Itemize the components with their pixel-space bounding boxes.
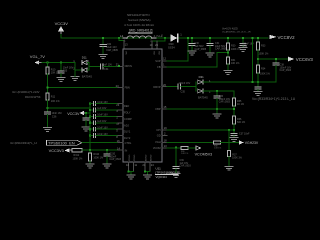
svg-text:100K 1%: 100K 1% xyxy=(73,157,84,160)
svg-text:R11: R11 xyxy=(51,95,56,98)
svg-text:CPI: CPI xyxy=(156,128,161,132)
svg-text:AGND: AGND xyxy=(144,154,147,161)
svg-text:1K 1%: 1K 1% xyxy=(237,103,245,106)
IC bottom pins xyxy=(126,162,154,175)
ground under C33 xyxy=(239,48,247,52)
ground under C30 xyxy=(188,51,196,55)
svg-text:VQFN24: VQFN24 xyxy=(156,175,168,179)
svg-text:FBN: FBN xyxy=(125,86,130,90)
svg-text:C34: C34 xyxy=(104,68,109,71)
svg-text:PGND: PGND xyxy=(129,154,131,161)
resistor R10 xyxy=(46,63,60,94)
svg-text:BAT54S: BAT54S xyxy=(198,95,208,99)
capacitor row DLY1 xyxy=(89,126,131,133)
node (86,113) xyxy=(85,112,87,114)
capacitor under R34 xyxy=(255,87,261,91)
svg-text:FBP: FBP xyxy=(156,107,161,111)
svg-text:1.0K 1%: 1.0K 1% xyxy=(214,148,221,150)
svg-text:ADJ: ADJ xyxy=(124,123,130,127)
wire cap-bank bus x90 xyxy=(89,104,91,150)
svg-text:24: 24 xyxy=(151,163,154,167)
capacitor row FDLY xyxy=(89,107,131,114)
diode D30 xyxy=(161,32,182,49)
capacitor C32 input xyxy=(100,38,119,54)
svg-text:600 1%: 600 1% xyxy=(237,121,246,124)
resistor R34 xyxy=(256,65,270,87)
svg-text:13: 13 xyxy=(164,144,167,148)
wire row y87.5 PGN xyxy=(48,87,119,89)
node (47.5,108) xyxy=(46,107,48,109)
inductor L1 annotation block xyxy=(124,13,154,33)
wire D11 tap to flying cap xyxy=(89,65,100,67)
svg-text:SS34: SS34 xyxy=(168,46,175,50)
resistor R312 horizontal xyxy=(72,149,83,161)
wire DRVP row xyxy=(162,86,167,88)
svg-text:VCC3V: VCC3V xyxy=(67,112,80,116)
svg-text:CAP_0805: CAP_0805 xyxy=(195,48,207,51)
net label VGL_7V xyxy=(30,54,45,65)
svg-text:CAP_0603: CAP_0603 xyxy=(280,69,292,72)
power flag VCC3V xyxy=(55,21,69,38)
svg-text:CAP_0603: CAP_0603 xyxy=(180,164,192,167)
svg-text:DLY1: DLY1 xyxy=(124,130,131,134)
resistor R310 xyxy=(88,150,104,163)
resistor R39 horizontal xyxy=(181,146,196,155)
ground under C31 xyxy=(206,53,214,57)
svg-text:C36: C36 xyxy=(52,115,57,118)
wire VGL row y62.5 xyxy=(42,62,75,64)
svg-text:R34: R34 xyxy=(261,68,266,71)
svg-text:PGND: PGND xyxy=(134,154,136,161)
wire bus after diode xyxy=(178,37,268,39)
svg-text:1uF 16V: 1uF 16V xyxy=(97,120,106,123)
wire SW pins elbow xyxy=(164,38,166,41)
ground under R31 xyxy=(224,71,232,75)
power arrow VCC6V3 xyxy=(288,57,313,63)
svg-text:SUP: SUP xyxy=(155,59,161,63)
wire row y108 xyxy=(48,107,91,109)
svg-text:CAP_0805: CAP_0805 xyxy=(215,48,227,51)
capacitor row COMP xyxy=(89,114,132,121)
capacitor C35 10nF xyxy=(58,63,74,78)
svg-text:19: 19 xyxy=(164,126,167,130)
svg-text:10nF 16V: 10nF 16V xyxy=(97,114,108,117)
svg-text:10: 10 xyxy=(126,163,129,167)
capacitor C30 xyxy=(189,38,207,51)
svg-text:Vo=(R33/R34+1)*1.213 L_1U: Vo=(R33/R34+1)*1.213 L_1U xyxy=(252,97,296,101)
power arrow VGH23V xyxy=(239,140,259,145)
ground under D11 pin2 xyxy=(71,77,79,81)
ground x47 xyxy=(44,128,52,132)
svg-text:23: 23 xyxy=(116,84,119,88)
resistor R36 xyxy=(232,116,246,130)
capacitor row REF xyxy=(89,101,130,108)
svg-text:IN: IN xyxy=(125,148,128,152)
resistor R30 divider top xyxy=(226,38,241,57)
node (107,149) xyxy=(106,149,108,151)
svg-text:21: 21 xyxy=(116,62,119,66)
svg-text:DRVN: DRVN xyxy=(125,64,132,68)
wire VCOM row y147.8 xyxy=(162,147,167,149)
svg-text:FB: FB xyxy=(157,65,161,69)
svg-text:21: 21 xyxy=(142,163,145,167)
svg-text:VCC6V3: VCC6V3 xyxy=(296,57,314,62)
svg-text:D11: D11 xyxy=(82,55,87,59)
wire VGH row y142 xyxy=(162,142,167,144)
svg-text:1uF 16V: 1uF 16V xyxy=(97,107,106,110)
ground under R37 xyxy=(225,166,233,170)
svg-text:20: 20 xyxy=(163,83,166,87)
svg-text:VIN: VIN xyxy=(125,51,127,55)
net label VCC3V mid xyxy=(67,111,90,116)
svg-text:NRS4012T4R7N: NRS4012T4R7N xyxy=(127,13,150,17)
ground IC bottom left xyxy=(127,175,135,179)
capacitor C310 xyxy=(104,150,122,163)
svg-text:10: 10 xyxy=(150,43,153,47)
net flag TPS60100_EN xyxy=(47,140,82,145)
node junction right of inductor xyxy=(164,37,166,39)
resistor R33 xyxy=(256,38,269,65)
node (61,62.5) xyxy=(60,61,62,63)
wire rail y82 xyxy=(206,81,276,83)
dual diode D11 BAT54S xyxy=(73,55,92,78)
wire FBP row xyxy=(162,108,167,110)
wire VCC6V3 row xyxy=(258,58,288,60)
svg-text:C35: C35 xyxy=(181,91,186,94)
wire rail y91 xyxy=(206,90,234,92)
svg-text:VCOM5V3: VCOM5V3 xyxy=(195,153,213,157)
capacitor C38 xyxy=(273,59,292,82)
inductor L1 xyxy=(120,34,162,43)
svg-text:CAP_0603: CAP_0603 xyxy=(109,158,121,161)
ground x90 xyxy=(86,164,94,168)
capacitor row ADJ xyxy=(89,120,130,127)
net label VCC3V3 xyxy=(49,148,72,153)
capacitor C36b x217 xyxy=(214,90,231,114)
svg-text:VGH23V: VGH23V xyxy=(245,141,259,145)
ground x217 xyxy=(213,114,221,118)
node (47.5,62.5) xyxy=(46,61,48,63)
svg-text:VCC3V3: VCC3V3 xyxy=(49,148,64,153)
ground under C37 xyxy=(230,138,238,142)
capacitor C34 flying xyxy=(101,63,124,71)
capacitor C37 under y130 xyxy=(231,130,250,137)
IC U11 body xyxy=(123,49,162,162)
resistor R31 divider bottom xyxy=(226,57,240,70)
node SW junction left xyxy=(118,37,120,39)
wire CPI row y130 xyxy=(162,129,167,131)
svg-text:R33: R33 xyxy=(261,44,266,47)
svg-text:R10=R11*5K: R10=R11*5K xyxy=(25,95,41,99)
svg-text:10K 1%: 10K 1% xyxy=(51,100,61,103)
ground under C32 xyxy=(99,55,107,59)
ground under C35 xyxy=(57,78,65,82)
svg-text:Sunlord (MWSA): Sunlord (MWSA) xyxy=(128,18,151,22)
ground x258 xyxy=(254,92,262,96)
svg-text:Vo=(R30/R31+1)*1.213 L_1R: Vo=(R30/R31+1)*1.213 L_1R xyxy=(222,31,251,33)
svg-text:100K 1%: 100K 1% xyxy=(93,156,104,159)
node (119,66.3) xyxy=(118,65,120,67)
dual diode D31 BAT54S xyxy=(196,75,211,99)
svg-text:REF: REF xyxy=(124,104,130,108)
capacitor C36 xyxy=(44,112,62,127)
svg-text:18: 18 xyxy=(164,139,167,143)
svg-text:Vo=(R310/R312)*L_1J: Vo=(R310/R312)*L_1J xyxy=(10,141,38,145)
svg-text:10nF 16V: 10nF 16V xyxy=(97,126,108,129)
IC labels U11 TPS65150RGER xyxy=(156,166,181,178)
power arrow VCC8V2 xyxy=(270,35,296,40)
resistor R38 horizontal xyxy=(214,141,239,150)
svg-text:TPS60100_EN: TPS60100_EN xyxy=(48,141,75,146)
svg-text:10nF 16V: 10nF 16V xyxy=(97,101,108,104)
wire main bus y38 xyxy=(61,37,171,39)
capacitor at x86 xyxy=(83,113,89,127)
wire FB row xyxy=(162,66,167,68)
right pin names xyxy=(153,59,161,150)
left pin names xyxy=(125,64,132,152)
resistor R37 xyxy=(227,130,242,166)
svg-text:VGL_7V: VGL_7V xyxy=(30,54,45,59)
svg-text:Vo=-(R10/R11)*1.213V: Vo=-(R10/R11)*1.213V xyxy=(12,90,40,94)
svg-text:100K 1%: 100K 1% xyxy=(231,48,242,51)
svg-text:VCC3V: VCC3V xyxy=(55,21,69,26)
svg-text:DLY2: DLY2 xyxy=(124,136,131,140)
svg-text:16: 16 xyxy=(117,139,120,143)
pin GD stub xyxy=(162,134,167,136)
svg-text:D30: D30 xyxy=(169,42,174,46)
svg-text:100K 1%: 100K 1% xyxy=(260,73,271,76)
ground IC bottom right xyxy=(144,175,152,179)
svg-text:GD: GD xyxy=(157,134,161,138)
wire VIN pin elbow xyxy=(118,38,120,41)
svg-text:15: 15 xyxy=(163,105,166,109)
capacitor C31 xyxy=(207,38,227,53)
power arrow VCOM5V3 xyxy=(195,146,213,157)
svg-text:Vo=8.2V 4LED: Vo=8.2V 4LED xyxy=(222,28,238,31)
svg-text:24: 24 xyxy=(155,43,158,47)
svg-text:14: 14 xyxy=(117,147,120,151)
svg-text:11: 11 xyxy=(134,163,137,167)
svg-text:COMP: COMP xyxy=(124,117,132,121)
capacitor C35b flying right xyxy=(178,82,196,93)
svg-text:12: 12 xyxy=(163,57,166,61)
wire riser x252.5 xyxy=(252,38,254,82)
svg-text:C35: C35 xyxy=(63,69,68,72)
svg-text:4.7uH ±20% 4A 38mΩ: 4.7uH ±20% 4A 38mΩ xyxy=(124,23,154,27)
svg-text:10nF 16V: 10nF 16V xyxy=(97,133,108,136)
svg-text:FDLY: FDLY xyxy=(124,111,131,115)
wire IN row xyxy=(82,149,118,151)
svg-text:L1: L1 xyxy=(120,34,124,38)
svg-text:D31: D31 xyxy=(199,75,205,79)
resistor R35 xyxy=(232,91,245,116)
wire CTRL row xyxy=(82,142,118,144)
svg-text:23: 23 xyxy=(116,103,119,107)
svg-text:17: 17 xyxy=(116,122,119,126)
svg-text:C37 10nF: C37 10nF xyxy=(239,133,250,136)
svg-text:100K 1%: 100K 1% xyxy=(259,53,270,56)
svg-text:1.0K 1%: 1.0K 1% xyxy=(181,153,188,155)
svg-text:BAT54S: BAT54S xyxy=(82,74,92,78)
ground x86 xyxy=(82,127,90,131)
svg-text:AGND: AGND xyxy=(149,154,152,161)
svg-text:10K 1%: 10K 1% xyxy=(231,62,240,65)
capacitor row DLY2 xyxy=(89,133,131,140)
resistor R11 xyxy=(46,93,60,112)
svg-text:13: 13 xyxy=(125,43,128,47)
svg-text:VCC8V2: VCC8V2 xyxy=(278,35,296,40)
svg-text:DRVP: DRVP xyxy=(153,85,160,89)
svg-text:CAP_0805: CAP_0805 xyxy=(106,49,118,52)
svg-text:[WD_NRS4012]: [WD_NRS4012] xyxy=(129,29,153,33)
svg-text:CTRL: CTRL xyxy=(125,141,132,145)
node (90,149) xyxy=(89,149,91,151)
ground x107 xyxy=(103,164,111,168)
capacitor C39 xyxy=(166,148,191,175)
wire SUP row xyxy=(162,60,167,62)
capacitor C33 100nF xyxy=(240,38,254,48)
svg-text:VCOM: VCOM xyxy=(153,146,161,150)
ground under C39 xyxy=(172,173,180,177)
svg-text:VGH: VGH xyxy=(155,140,161,144)
svg-text:100K 1%: 100K 1% xyxy=(232,156,243,159)
svg-text:CAP_0603: CAP_0603 xyxy=(219,100,231,103)
